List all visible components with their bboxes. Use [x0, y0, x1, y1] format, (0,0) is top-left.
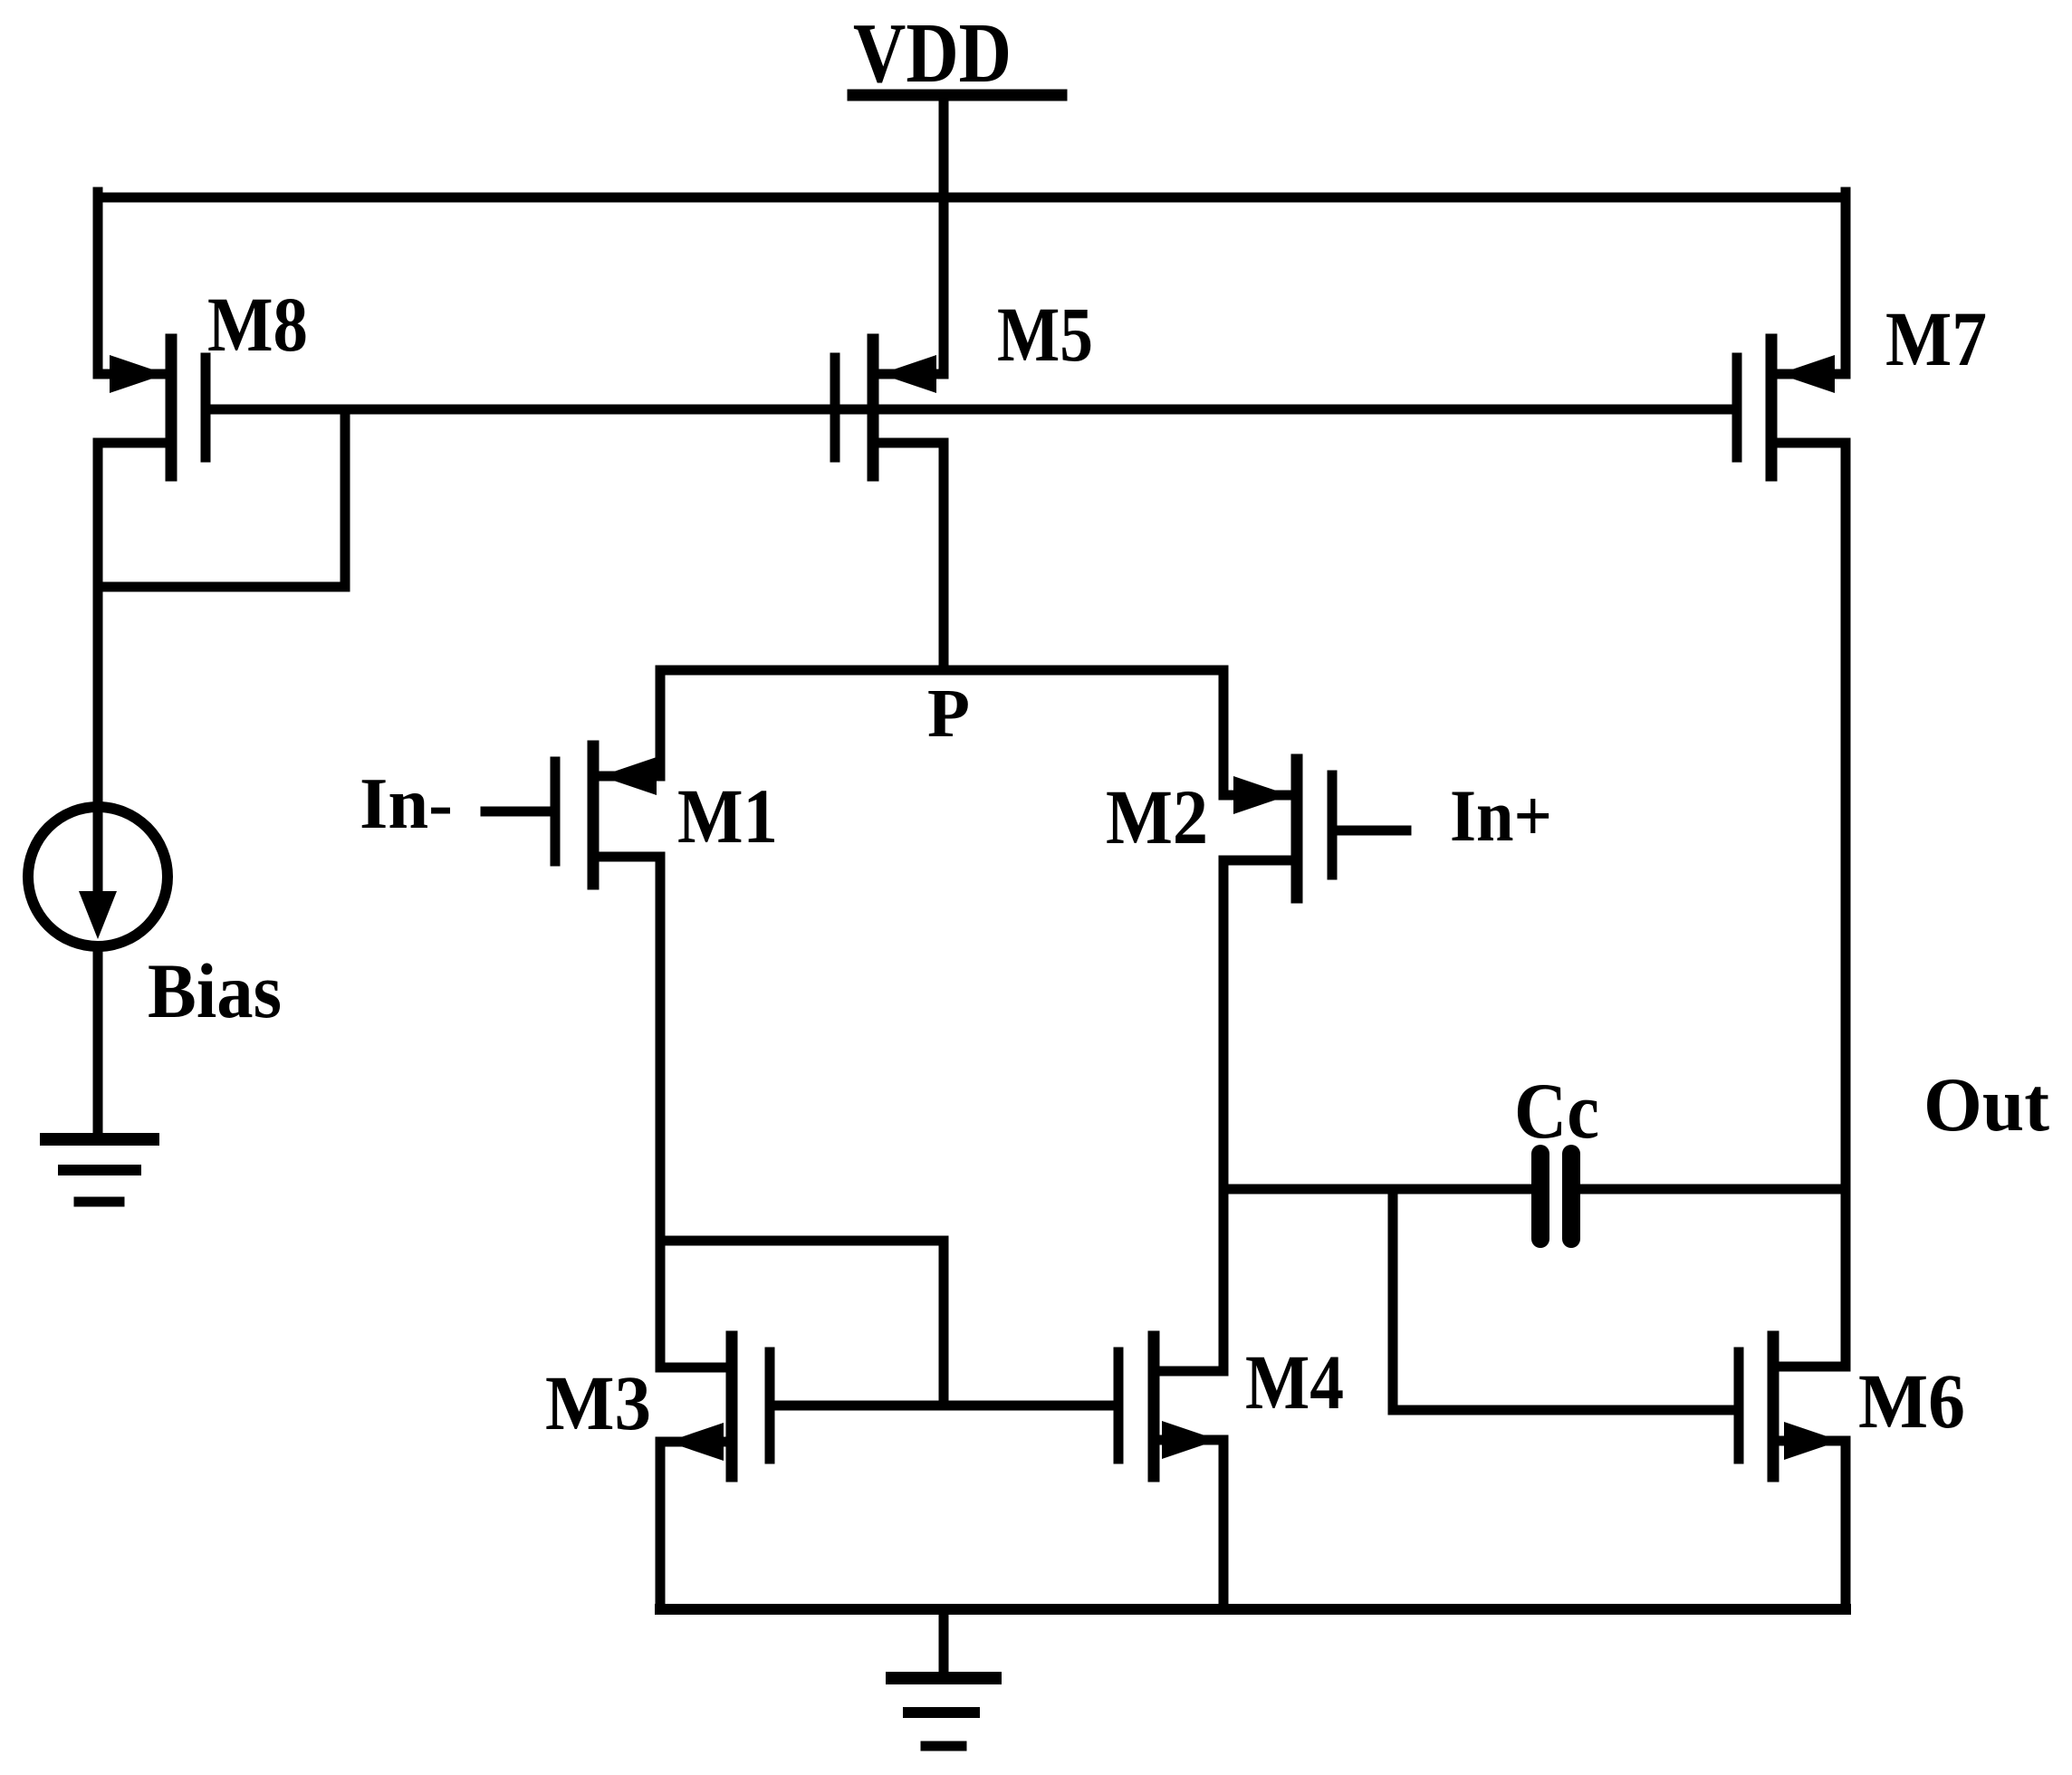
wire M6 source to ground rail [1841, 1441, 1851, 1609]
wire ground rail [660, 1604, 1846, 1615]
transistor M3 (NMOS) [660, 1337, 770, 1476]
current source Bias [28, 807, 168, 946]
transistor M6 (NMOS) [1739, 1337, 1846, 1476]
svg-text:In+: In+ [1450, 774, 1552, 857]
wire M1 drain to M3 drain [656, 857, 666, 1367]
svg-text:M8: M8 [207, 281, 308, 368]
svg-text:M2: M2 [1106, 773, 1208, 860]
svg-text:Cc: Cc [1514, 1068, 1599, 1156]
svg-text:M1: M1 [677, 772, 778, 859]
svg-text:P: P [927, 676, 970, 752]
wire In- to M1 gate [485, 807, 555, 817]
ground bottom [892, 1678, 995, 1746]
wire M2 drain down to M4 drain [1219, 860, 1229, 1371]
wire M3 source to ground rail [656, 1442, 666, 1609]
svg-text:Bias: Bias [148, 947, 282, 1034]
transistor M2 (PMOS) [1223, 760, 1332, 897]
transistor M4 (NMOS) [1118, 1337, 1223, 1476]
wire gate bus M3-M4 [770, 1401, 1118, 1411]
svg-text:Out: Out [1923, 1062, 2049, 1147]
node P bar [660, 670, 1223, 795]
wire bias to ground [93, 946, 103, 1139]
svg-text:M4: M4 [1245, 1338, 1344, 1425]
wire M8 drain down to bias [93, 443, 103, 812]
VDD supply bar [853, 90, 1061, 101]
wire M3 diode connection [660, 1241, 944, 1406]
svg-text:M7: M7 [1885, 295, 1987, 382]
wire M2 gate to In+ [1332, 826, 1406, 836]
wire gate bus M8-M5-M7 [206, 405, 1737, 415]
wire Out node (M7 drain to M6 drain) [1841, 443, 1851, 1367]
svg-text:M5: M5 [997, 291, 1093, 378]
wire ground stub [939, 1609, 949, 1674]
svg-text:In-: In- [360, 764, 453, 844]
svg-text:M3: M3 [545, 1359, 651, 1446]
capacitor Cc [1223, 1154, 1846, 1239]
svg-text:VDD: VDD [853, 6, 1012, 101]
transistor M7 (PMOS) [1737, 340, 1846, 475]
wire M5 drain to node P [939, 443, 949, 670]
wire M8 gate-drain loop [98, 409, 345, 587]
wire rail left drop to M8 source [93, 192, 103, 374]
wire M4 source to ground rail [1219, 1440, 1229, 1609]
wire VDD to M5 source [939, 95, 949, 374]
wire top rail [98, 193, 1846, 203]
wire rail right drop to M7 source [1841, 192, 1851, 374]
svg-text:M6: M6 [1858, 1358, 1965, 1444]
ground left [46, 1139, 153, 1202]
transistor M1 (PMOS) [555, 746, 660, 884]
wire M6 gate feed [1393, 1189, 1739, 1410]
transistor M8 (PMOS) [98, 340, 206, 475]
transistor M5 (PMOS) [835, 340, 944, 475]
